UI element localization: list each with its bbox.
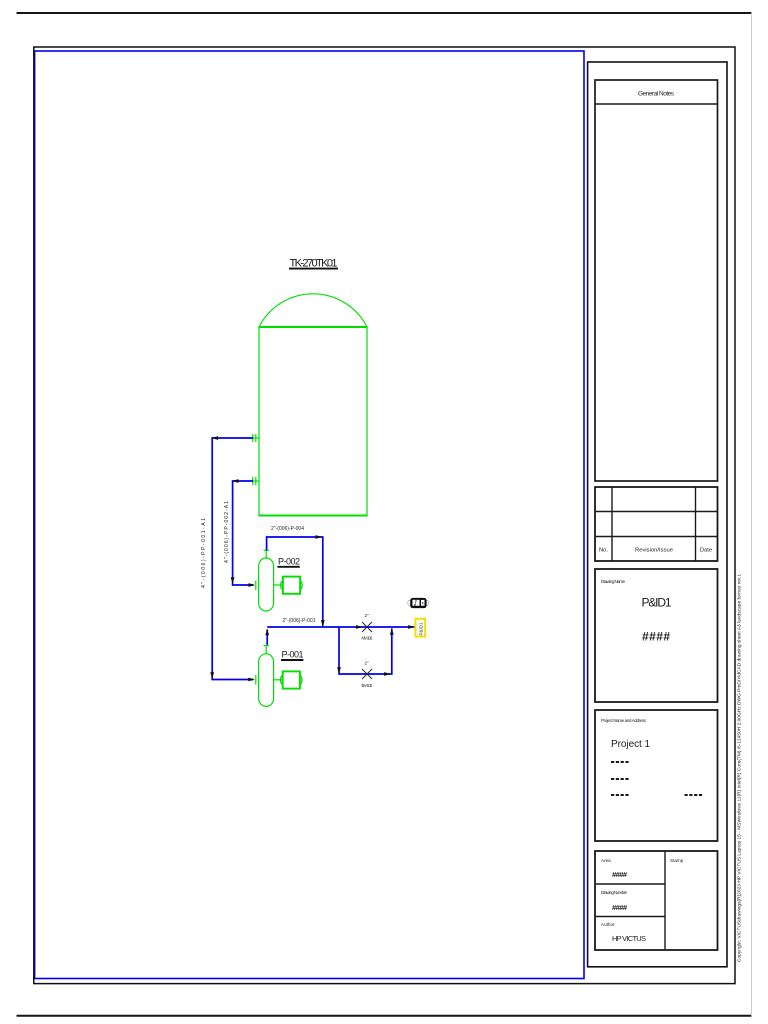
svg-text:####: #### [612, 903, 628, 912]
svg-text:Revision/Issue: Revision/Issue [635, 548, 673, 554]
svg-text:P-001: P-001 [282, 650, 304, 660]
svg-text:2"-(006)-P-004: 2"-(006)-P-004 [271, 526, 304, 532]
svg-text:4"-(006)-PP-002-A1: 4"-(006)-PP-002-A1 [224, 501, 230, 563]
svg-text:####: #### [642, 630, 670, 644]
svg-text:P&ID1: P&ID1 [418, 622, 423, 636]
svg-text:Stamp: Stamp [670, 858, 684, 863]
svg-text:Area: Area [601, 858, 611, 863]
svg-text:Copyright: VICTUSdrawings(R)20: Copyright: VICTUSdrawings(R)2023 HP VICT… [737, 574, 743, 962]
svg-text:HP VICTUS: HP VICTUS [612, 934, 646, 943]
svg-text:No.: No. [599, 548, 608, 554]
svg-text:2"-(006)-P-001: 2"-(006)-P-001 [283, 618, 316, 624]
svg-text:2": 2" [365, 661, 370, 666]
svg-text:P&ID1: P&ID1 [642, 596, 672, 610]
svg-text:P-002: P-002 [278, 557, 300, 567]
svg-text:Author: Author [601, 922, 615, 927]
svg-text:MV-102: MV-102 [362, 636, 374, 641]
svg-text:####: #### [612, 870, 628, 879]
svg-text:Project Name and Address: Project Name and Address [601, 718, 647, 723]
svg-text:4"-(006)-PP-001-A1: 4"-(006)-PP-001-A1 [201, 518, 207, 588]
svg-text:Drawing Name: Drawing Name [601, 579, 625, 584]
svg-text:General Notes: General Notes [638, 91, 675, 98]
svg-text:BV-102: BV-102 [362, 683, 374, 688]
svg-text:Drawing Number: Drawing Number [601, 890, 627, 895]
svg-text:Date: Date [700, 548, 712, 554]
svg-text:2": 2" [365, 613, 370, 618]
svg-text:Project 1: Project 1 [611, 739, 650, 750]
